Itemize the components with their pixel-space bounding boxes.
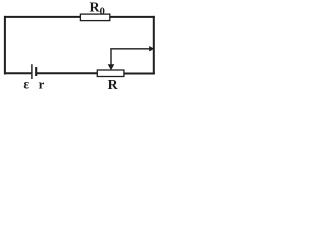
resistor R0	[80, 14, 109, 21]
junction arrowhead at right-side wire	[149, 46, 154, 52]
wiper wire: horizontal segment to right side	[110, 48, 150, 50]
wire: top side, right segment	[110, 16, 155, 18]
wire: bottom side, middle segment battery to R	[37, 72, 98, 74]
wire: right side	[153, 16, 155, 75]
wire: top side, left segment	[4, 16, 81, 18]
battery: short plate (r)	[35, 67, 37, 76]
wire: bottom side, right segment R to corner	[124, 73, 155, 75]
svg-text:r: r	[39, 78, 45, 90]
wire: bottom side, left segment to battery	[4, 72, 31, 74]
svg-text:R: R	[108, 77, 119, 90]
battery: long plate (ε)	[31, 64, 33, 79]
resistor R (rheostat body)	[97, 70, 124, 77]
wiper wire: vertical shaft down to R	[110, 49, 112, 65]
svg-text:ε: ε	[23, 77, 29, 90]
svg-text:0: 0	[100, 6, 105, 17]
wiper arrowhead onto R	[108, 64, 115, 70]
wire: left side	[4, 16, 6, 75]
